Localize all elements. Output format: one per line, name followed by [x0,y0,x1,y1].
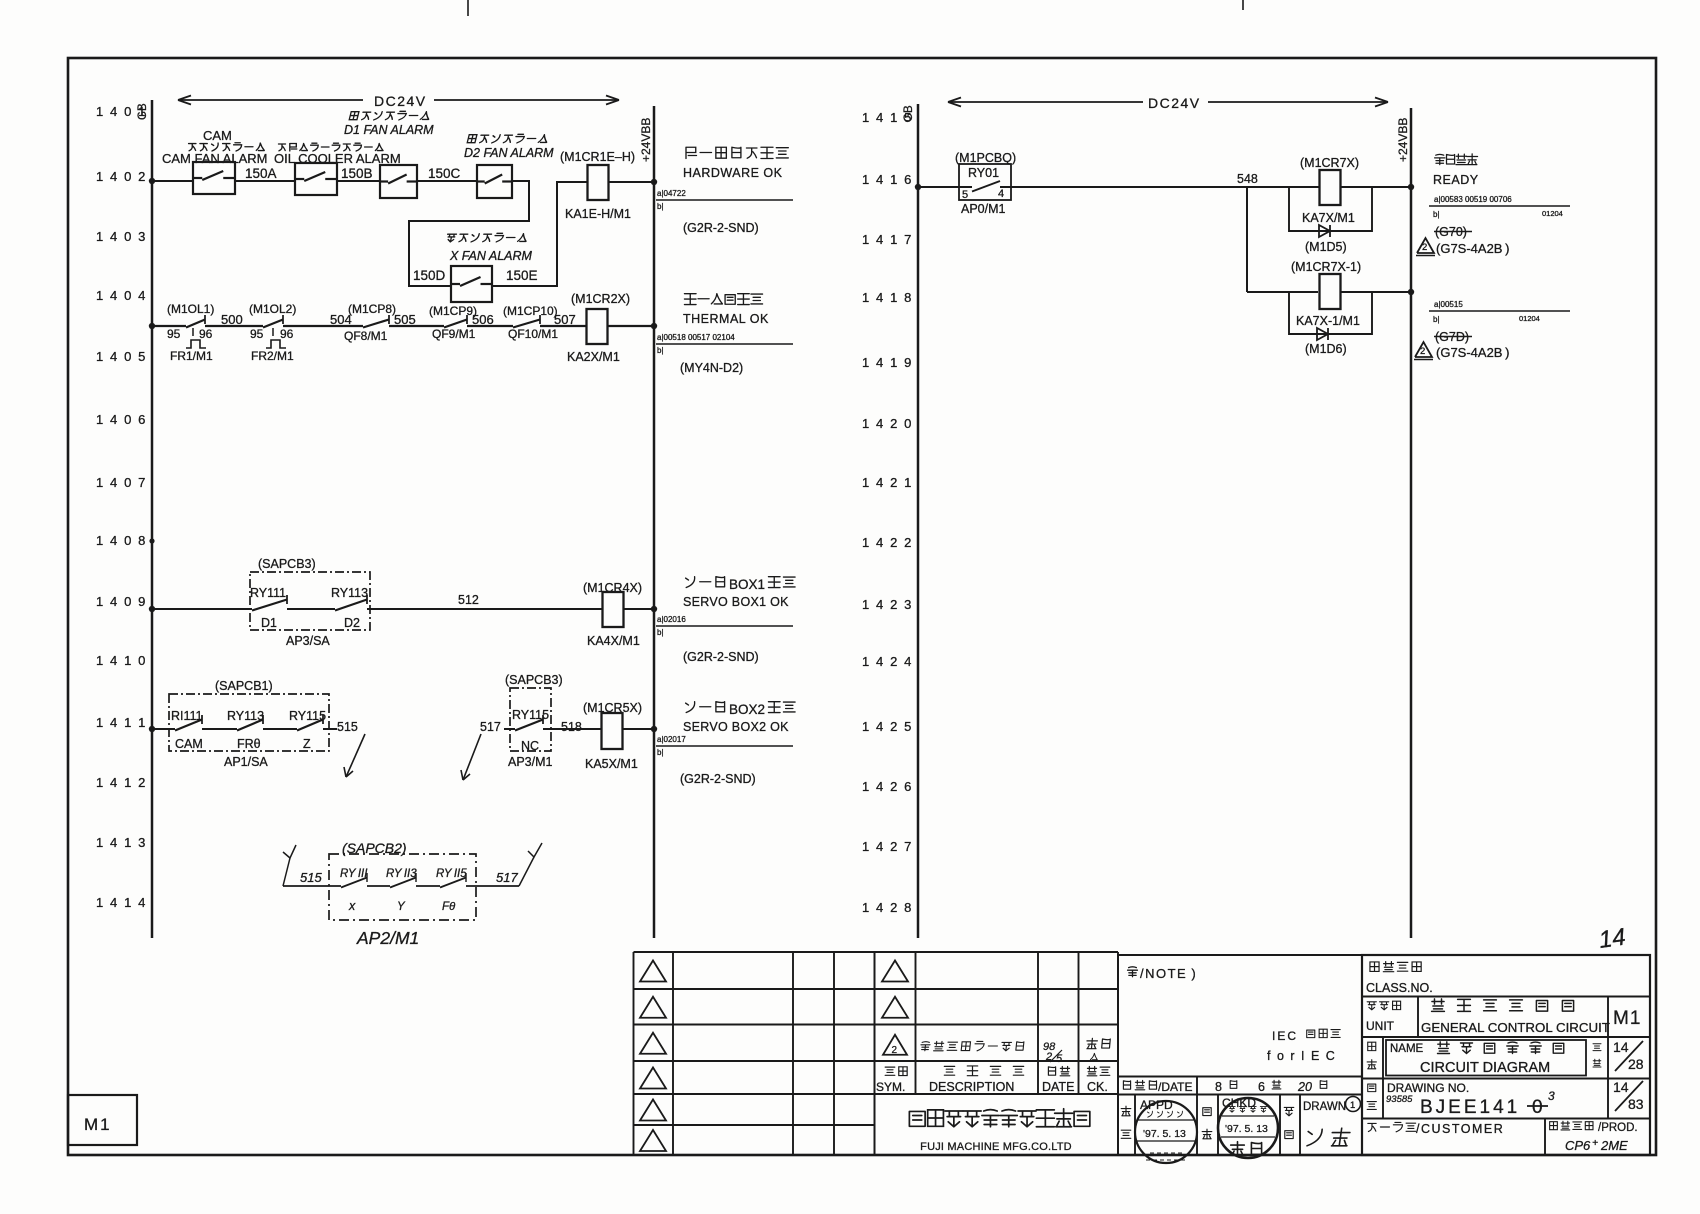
node on +24VBB rail rung 1416 [1408,184,1414,190]
handwritten connector label AP2/M1 [356,928,419,948]
svg-text:CAM FAN ALARM: CAM FAN ALARM [162,151,267,166]
revision triangle second group row 1 [882,961,908,982]
date row value 8-6-20 [1215,1080,1327,1094]
svg-text:96: 96 [199,327,213,341]
wire label 517 [480,720,501,734]
note panel box [1118,955,1362,1077]
wire label 150A [245,166,277,181]
connector label AP3/SA [286,634,330,648]
warning triangle note 1418 [1414,342,1509,360]
svg-text:1 4 0 2: 1 4 0 2 [96,169,147,184]
svg-text:DRAWN: DRAWN [1303,1101,1346,1113]
svg-text:1 4 1 9: 1 4 1 9 [862,355,913,370]
approval stamp circle 1 [1135,1101,1197,1163]
revision row3 date 98 2/5 [1043,1041,1063,1065]
APPD label [1140,1098,1173,1112]
rung number 1414 [96,895,147,910]
svg-text:4: 4 [998,188,1004,200]
svg-text:6: 6 [1258,1080,1265,1094]
wire label 506 [472,312,494,327]
svg-text:b|: b| [657,346,664,355]
handwritten label 515 left [300,870,322,885]
svg-text:KA1E-H/M1: KA1E-H/M1 [565,207,631,221]
svg-text:1 4 0 8: 1 4 0 8 [96,533,147,548]
contact 150A CAM FAN ALARM box [193,162,235,194]
wire 504 [283,325,363,327]
drawing number cell [1367,1079,1644,1119]
svg-text:2ME: 2ME [1600,1138,1628,1153]
cross-reference table rung 1411 [656,735,793,757]
label D1 fan alarm (handwritten) [344,111,434,137]
svg-text:BOX1: BOX1 [729,577,765,592]
svg-text:DC24V: DC24V [374,93,427,109]
contact RY113 FR0 [227,709,264,751]
svg-text:(G2R-2-SND): (G2R-2-SND) [680,772,756,786]
rung number 1415 [862,110,913,125]
contact RY113 Y [386,868,417,913]
svg-text:a|00518 00517 02104: a|00518 00517 02104 [657,333,735,342]
svg-text:(G7S-4A2B ): (G7S-4A2B ) [1436,241,1509,256]
svg-text:KA4X/M1: KA4X/M1 [587,634,640,648]
svg-text:(G2R-2-SND): (G2R-2-SND) [683,650,759,664]
revision table second group grid [875,952,1119,1155]
svg-text:b|: b| [657,202,664,211]
wire 507 to coil [540,325,586,327]
contact 150B OIL COOLER ALARM box [295,163,337,195]
annotation relay type G2R-2-SND rung 1409 [683,650,759,664]
node on GB rail rung 1409 [149,606,155,612]
svg-text:20: 20 [1297,1080,1312,1094]
svg-text:a|00583 00519 00706: a|00583 00519 00706 [1434,195,1512,204]
wire label 150B [341,166,373,181]
coil M1CR7X-1 relay [1291,260,1361,328]
svg-text:QF9/M1: QF9/M1 [432,327,476,341]
wire rung 1411 start [152,728,175,730]
svg-text:RY111: RY111 [250,586,286,600]
svg-text:CLASS.NO.: CLASS.NO. [1366,981,1433,995]
drawn label vertical [1284,1107,1294,1138]
svg-text:517: 517 [496,870,518,885]
svg-text:515: 515 [337,720,358,734]
svg-text:1 4 1 0: 1 4 1 0 [96,653,147,668]
svg-text:(G7S-4A2B ): (G7S-4A2B ) [1436,345,1509,360]
thermal overload contact M1OL2 FR2/M1 [249,302,296,363]
contact RY111 D1 [250,586,287,630]
svg-text:(M1OL1): (M1OL1) [167,302,214,316]
svg-text:1 4 2 1: 1 4 2 1 [862,475,913,490]
rung number 1426 [862,779,913,794]
rung number 1422 [862,535,913,550]
svg-text:01204: 01204 [1519,314,1540,323]
svg-text:506: 506 [472,312,494,327]
svg-text:1 4 0 7: 1 4 0 7 [96,475,147,490]
svg-text:CK.: CK. [1087,1080,1108,1094]
svg-text:14: 14 [1613,1039,1629,1055]
DC24V supply arrow right ladder [948,95,1388,111]
svg-text:0: 0 [1532,1097,1543,1118]
table header CK [1087,1066,1110,1094]
approval label vertical [1121,1106,1131,1138]
rung number 1425 [862,719,913,734]
svg-text:1 4 2 3: 1 4 2 3 [862,597,913,612]
rung number 1404 [96,288,147,303]
wire detour down to X fan alarm branch [409,181,529,286]
wire 512 to coil [367,608,602,610]
svg-text:96: 96 [280,327,294,341]
svg-text:'97. 5. 13: '97. 5. 13 [1225,1123,1268,1135]
svg-text:KA2X/M1: KA2X/M1 [567,350,620,364]
svg-text:(M1CP9): (M1CP9) [429,304,477,318]
svg-text:3: 3 [1548,1089,1555,1103]
wire 150A [235,180,295,182]
label D2 fan alarm (handwritten) [464,134,554,160]
svg-text:150B: 150B [341,166,373,181]
cross-reference table rung 1404 [656,333,793,355]
svg-text:2: 2 [1420,346,1425,357]
branch junction down to rung 1418 [1246,187,1248,292]
svg-text:KA7X/M1: KA7X/M1 [1302,211,1355,225]
break symbol right lead [519,843,542,886]
cross-reference table rung 1409 [656,615,793,637]
scan registration tick top 2 [1242,0,1244,10]
svg-text:DRAWING NO.: DRAWING NO. [1387,1081,1469,1095]
svg-text:5: 5 [962,189,968,201]
handwritten label 517 right [496,870,518,885]
svg-text:READY: READY [1433,173,1479,187]
svg-text:(M1D5): (M1D5) [1305,240,1347,254]
wire coil to rail rung 1404 [608,325,654,327]
svg-text:93585: 93585 [1386,1094,1413,1105]
svg-text:CP6: CP6 [1565,1138,1591,1153]
contact 150E X FAN ALARM box [451,266,492,302]
contact M1CP10 QF10/M1 [503,304,558,341]
DC24V supply arrow left ladder [178,93,619,109]
wire coil to +24VBB rail rung 1402 [609,181,654,183]
thermal overload contact M1OL1 FR1/M1 [167,302,214,363]
CHKD label [1222,1096,1256,1110]
svg-text:b|: b| [1433,210,1440,219]
svg-text:/NOTE ): /NOTE ) [1140,966,1197,981]
coil M1CR2X relay [567,292,630,364]
svg-text:(SAPCB3): (SAPCB3) [505,673,563,687]
svg-text:(M1CR7X-1): (M1CR7X-1) [1291,260,1361,274]
svg-text:1 4 2 5: 1 4 2 5 [862,719,913,734]
svg-text:BOX2: BOX2 [729,702,765,717]
svg-text:150D: 150D [413,268,446,283]
label X fan alarm (handwritten) [446,233,533,263]
svg-text:IEC: IEC [1272,1029,1298,1043]
svg-text:D2: D2 [344,616,360,630]
svg-text:SERVO BOX1 OK: SERVO BOX1 OK [683,595,789,609]
wire 500 [205,325,263,327]
svg-text:(SAPCB3): (SAPCB3) [258,557,316,571]
svg-text:(M1PCBQ): (M1PCBQ) [955,151,1016,165]
svg-text:FRθ: FRθ [237,737,261,751]
svg-text:AP3/SA: AP3/SA [286,634,330,648]
svg-text:(M1CP8): (M1CP8) [348,302,396,316]
svg-text:QF8/M1: QF8/M1 [344,329,388,343]
svg-text:95: 95 [167,327,181,341]
contact 150C D1 FAN ALARM box [380,165,417,198]
rung number 1403 [96,229,147,244]
wire 506 [467,325,513,327]
svg-text:1 4 1 2: 1 4 1 2 [96,775,147,790]
revision triangle left row 1 [640,961,666,982]
svg-text:NAME: NAME [1390,1043,1424,1055]
svg-text:14: 14 [1613,1079,1629,1095]
cross-reference table rung 1402 [656,189,793,211]
svg-text:SYM.: SYM. [876,1080,905,1094]
svg-text:+24VBB: +24VBB [1396,118,1410,162]
svg-text:'97. 5. 13: '97. 5. 13 [1143,1128,1186,1140]
sheet label box M1 bottom-left [68,1095,137,1145]
unit cell [1366,997,1641,1038]
wire 518 to coil [543,728,601,730]
connector box SAPCB3 second [505,673,563,751]
svg-text:M1: M1 [1613,1008,1641,1029]
svg-text:517: 517 [480,720,501,734]
revision triangle left row 3 [640,1033,666,1054]
svg-text:QF10/M1: QF10/M1 [508,327,558,341]
svg-text:1 4 0 4: 1 4 0 4 [96,288,147,303]
wire label 505 [394,312,416,327]
annotation relay type G2R-2-SND [683,221,759,235]
contact M1CP9 QF9/M1 [429,304,477,341]
node on +24VBB rail rung 1418 [1408,289,1414,295]
svg-text:1 4 1 1: 1 4 1 1 [96,715,147,730]
svg-text:1 4 1 8: 1 4 1 8 [862,290,913,305]
class number cell [1366,962,1433,995]
approval row cells [1135,1095,1300,1156]
svg-text:KA7X-1/M1: KA7X-1/M1 [1296,314,1360,328]
rung number 1402 [96,169,147,184]
wire between RY111 and RY113 [287,608,335,610]
wire rung 1402 from rail [152,180,193,182]
annotation READY [1433,154,1479,187]
rung number 1412 [96,775,147,790]
maker box Fuji Machine MFG [909,1109,1089,1153]
annotation servo box2 OK [683,702,795,734]
handwritten connector box SAPCB2 [329,840,476,920]
revision triangle left row 4 [640,1068,666,1089]
svg-text:DATE: DATE [1042,1080,1074,1094]
svg-text:515: 515 [300,870,322,885]
wire coil to rail rung 1409 [624,608,654,610]
coil M1CR4X relay [583,581,642,648]
svg-text:+: + [1592,1137,1598,1149]
svg-text:BJEE141: BJEE141 [1420,1097,1520,1118]
svg-text:FR2/M1: FR2/M1 [251,349,294,363]
svg-text:M1: M1 [84,1115,112,1134]
annotation relay type G2R-2-SND rung 1411 [680,772,756,786]
svg-text:FR1/M1: FR1/M1 [170,349,213,363]
wire rung 1409 start [152,608,252,610]
left ladder right rail +24VBB [639,106,654,938]
svg-text:(M1D6): (M1D6) [1305,342,1347,356]
annotation hardware OK [683,147,788,180]
connector box SAPCB3 servo box1 [250,557,370,630]
drawn signature (handwritten) [1306,1128,1350,1146]
svg-text:1 4 1 4: 1 4 1 4 [96,895,147,910]
node on GB rail rung 1408 [149,538,154,543]
rung number 1411 [96,715,147,730]
svg-text:X FAN ALARM: X FAN ALARM [449,249,533,263]
svg-text:D1: D1 [261,616,277,630]
svg-text:507: 507 [554,312,576,327]
deleted note G70 [1434,225,1472,239]
svg-text:1 4 2 8: 1 4 2 8 [862,900,913,915]
svg-text:Fθ: Fθ [442,901,456,913]
svg-text:DESCRIPTION: DESCRIPTION [929,1080,1014,1094]
wire RY113 to RY115 [263,728,297,730]
wire label 518 [561,720,582,734]
revision triangle 2 row3 [883,1035,907,1056]
wire label 548 [1237,172,1258,186]
wire RI111 to RY113 [202,728,237,730]
svg-text:NC: NC [521,739,539,753]
contact RY115 NC [512,708,549,753]
wire coil M1CR7X to rail [1341,186,1411,188]
svg-text:CIRCUIT DIAGRAM: CIRCUIT DIAGRAM [1420,1060,1550,1076]
svg-text:f o r I E C: f o r I E C [1267,1049,1336,1063]
contact RY115 Z [289,709,326,751]
svg-text:518: 518 [561,720,582,734]
rung number 1418 [862,290,913,305]
wire 517 stub to SAPCB3 [504,728,515,730]
svg-text:AP3/M1: AP3/M1 [508,755,553,769]
svg-text:83: 83 [1628,1096,1644,1112]
svg-text:(M1CR2X): (M1CR2X) [571,292,630,306]
svg-text:a|02016: a|02016 [657,615,686,624]
node on +24VBB rail rung 1411 [651,726,657,732]
date row label [1123,1080,1192,1094]
wire rung 1416 start [918,186,959,188]
wire label 515 [337,720,358,734]
contact RY111 X [340,868,368,913]
wire label 507 [554,312,576,327]
svg-text:1 4 2 6: 1 4 2 6 [862,779,913,794]
svg-text:14: 14 [1597,923,1627,953]
revision triangle second group row 2 [882,997,908,1018]
svg-text:2: 2 [1422,242,1427,253]
handwritten arrow annotation left [344,734,365,777]
rung number 1423 [862,597,913,612]
svg-text:01204: 01204 [1542,209,1563,218]
rung number 1427 [862,839,913,854]
svg-text:a|00515: a|00515 [1434,300,1463,309]
check label vertical [1202,1108,1212,1139]
svg-text:1 4 2 0: 1 4 2 0 [862,416,913,431]
rung number 1428 [862,900,913,915]
wire lead out of SAPCB2 [466,885,519,887]
approval stamp circle 2 Yamamoto [1218,1098,1278,1158]
revision row3 description welding relay change (handwritten) [920,1041,1024,1050]
node on GB rail rung 1416 [915,184,921,190]
node on GB rail rung 1402 [149,178,155,184]
contact RY113 D2 [331,586,368,630]
wire label 500 [221,312,243,327]
svg-text:THERMAL OK: THERMAL OK [683,312,769,326]
svg-text:512: 512 [458,593,479,607]
customer cell [1368,1119,1638,1156]
svg-text:1 4 2 4: 1 4 2 4 [862,654,913,669]
svg-text:1 4 1 6: 1 4 1 6 [862,172,913,187]
cross-reference table rung 1418 [1429,300,1570,324]
svg-text:RY01: RY01 [968,166,999,180]
rung number 1424 [862,654,913,669]
table header DATE [1042,1066,1074,1094]
svg-text:(M1CR1E–H): (M1CR1E–H) [560,150,635,164]
node on GB rail rung 1404 [149,323,155,329]
rung number 1419 [862,355,913,370]
rung number 1405 [96,349,147,364]
svg-text:(M1CP10): (M1CP10) [503,304,558,318]
coil M1CR1E-H relay [560,150,635,221]
connector label AP1/SA [224,755,268,769]
rung number 1417 [862,232,913,247]
rung number 1416 [862,172,913,187]
wire coil M1CR7X-1 to rail [1341,291,1411,293]
svg-text:D1 FAN ALARM: D1 FAN ALARM [344,123,434,137]
svg-text:GB: GB [903,105,915,122]
title block frame [1362,955,1650,1155]
coil M1CR7X relay [1300,156,1359,225]
note text for IEC [1267,1029,1340,1063]
handwritten arrow annotation right [461,734,481,780]
annotation thermal OK [683,294,769,326]
warning triangle note 1416 [1416,238,1509,256]
svg-text:28: 28 [1628,1056,1644,1072]
left bus rail GB [137,100,152,938]
svg-text:(M1CR7X): (M1CR7X) [1300,156,1359,170]
svg-text:(MY4N-D2): (MY4N-D2) [680,361,743,375]
rung number 1410 [96,653,147,668]
svg-text:1 4 0 6: 1 4 0 6 [96,412,147,427]
revision triangle left row 5 [640,1100,666,1121]
svg-text:AP0/M1: AP0/M1 [961,202,1006,216]
rung number 1413 [96,835,147,850]
wire RY111-RY113 handwritten [367,885,390,887]
contact RY115 F0 [436,868,467,913]
contact M1CP8 QF8/M1 [344,302,396,343]
wire label 512 [458,593,479,607]
rung number 1420 [862,416,913,431]
revision table left group grid [634,952,875,1155]
svg-text:a|04722: a|04722 [657,189,686,198]
svg-text:a|02017: a|02017 [657,735,686,744]
deleted note G7D [1434,330,1472,344]
svg-text:(SAPCB1): (SAPCB1) [215,679,273,693]
rung number 1407 [96,475,147,490]
svg-text:GENERAL CONTROL CIRCUIT: GENERAL CONTROL CIRCUIT [1421,1020,1610,1035]
flyback diode M1D5 branch [1289,187,1372,254]
svg-text:/CUSTOMER: /CUSTOMER [1416,1122,1504,1136]
svg-text:(M1OL2): (M1OL2) [249,302,296,316]
rung number 1401 [96,104,147,119]
rung number 1406 [96,412,147,427]
wire 150C [417,180,477,182]
svg-text:8: 8 [1215,1080,1222,1094]
svg-text:/PROD.: /PROD. [1598,1122,1638,1134]
rung number 1408 [96,533,147,548]
svg-text:SERVO BOX2 OK: SERVO BOX2 OK [683,720,789,734]
svg-text:548: 548 [1237,172,1258,186]
svg-text:FUJI MACHINE MFG.CO.LTD: FUJI MACHINE MFG.CO.LTD [920,1141,1072,1153]
svg-text:150E: 150E [506,268,538,283]
wire RY113-RY115 handwritten [416,885,440,887]
svg-text:D2 FAN ALARM: D2 FAN ALARM [464,146,554,160]
svg-text:95: 95 [250,327,264,341]
